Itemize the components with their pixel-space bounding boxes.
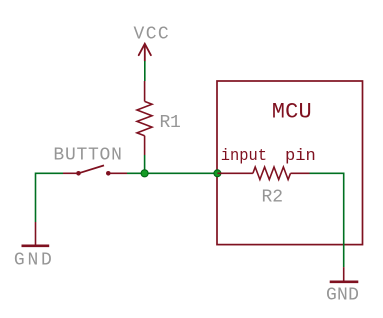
wire VCC to R1 (net) [144,61,146,81]
button right contact dot [106,171,111,176]
resistor R1 top lead [144,81,146,101]
resistor R2 left lead [217,172,253,174]
VCC supply arrow symbol [139,44,151,61]
ground GND left bar [22,245,50,248]
svg-text:R2: R2 [262,188,284,208]
svg-text:GND: GND [326,285,359,305]
junction node at MCU edge [214,170,221,177]
wire R2 to right GND (green horizontal) [310,173,344,267]
svg-text:R1: R1 [160,113,181,133]
resistor R2 zigzag [253,167,291,180]
svg-text:pin: pin [285,147,316,166]
button actuator arm [79,165,105,173]
button right pin lead [108,172,127,174]
svg-text:input: input [221,147,267,166]
resistor R1 bottom lead [144,136,146,155]
resistor R1 zigzag [137,101,152,135]
resistor R2 right lead [291,172,310,174]
svg-text:BUTTON: BUTTON [53,146,122,166]
ground GND right stub [343,267,345,280]
button left contact dot [76,171,81,176]
ground GND right bar [330,280,359,283]
button left pin lead [63,172,79,174]
wire button to MCU (green) [127,172,217,174]
junction node (button/R1/MCU) [141,170,148,177]
svg-text:MCU: MCU [272,99,312,124]
wire left vertical to GND [36,173,64,222]
wire R1 to junction [144,155,146,173]
svg-text:GND: GND [14,250,52,270]
MCU box U1 [217,81,363,245]
svg-text:VCC: VCC [134,25,169,45]
ground GND left stub [35,222,37,245]
